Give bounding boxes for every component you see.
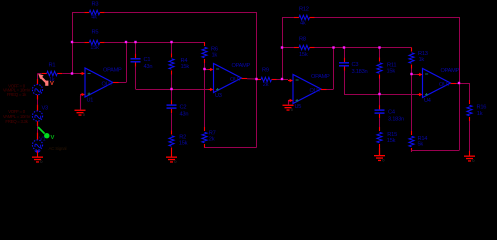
node junction C1 tap: [134, 41, 136, 43]
node junction OUT1-up: [125, 41, 127, 43]
resistor R9: [256, 68, 277, 89]
svg-text:R9: R9: [262, 68, 269, 74]
node junction x72/rail1b: [71, 41, 73, 43]
op-amp U3: [209, 63, 251, 99]
wire input node to R1: [38, 73, 42, 75]
wire rail1b down to R4: [171, 42, 173, 54]
ground at U5 plus input: [283, 101, 294, 113]
pin R15 bottom to ground: [379, 148, 381, 155]
wire C2 to R2: [171, 113, 173, 130]
node junction x282/rail2b: [281, 46, 283, 48]
wire mid2 node row: [344, 94, 418, 96]
resistor R2: [169, 131, 188, 152]
svg-text:R16: R16: [477, 105, 487, 111]
svg-text:OUT: OUT: [230, 77, 242, 83]
svg-text:C4: C4: [388, 109, 395, 115]
wire R4 to mid1: [171, 75, 173, 90]
svg-text:FREQ = 1k: FREQ = 1k: [7, 92, 27, 97]
svg-text:R1: R1: [49, 63, 56, 69]
svg-text:OPAMP: OPAMP: [103, 67, 122, 73]
node junction OUT2: [255, 78, 257, 80]
resistor R16: [467, 100, 486, 121]
svg-text:OUT: OUT: [310, 88, 322, 94]
wire R13 to U4 minus node: [411, 69, 413, 75]
wire R7 bottom corner to feedback: [204, 147, 206, 150]
wire R14 to x459 bottom: [412, 150, 460, 152]
wire rail2b down to C3: [344, 48, 346, 59]
wire rail2b down to R11: [379, 48, 381, 58]
resistor R7: [202, 127, 216, 148]
wire rail2b (OUT3 net): [315, 47, 412, 49]
wire R6 to U3 minus node: [204, 63, 206, 69]
resistor R15: [377, 127, 397, 148]
svg-text:15k: 15k: [387, 138, 396, 144]
wire R7 to x256 bottom: [205, 147, 257, 149]
svg-text:U4: U4: [424, 98, 431, 104]
ground under R15: [374, 150, 385, 163]
wire rail1b down to C1: [135, 42, 137, 54]
wire rail2b left segment: [282, 47, 294, 49]
wire rail1a R3 to x256 corner: [105, 12, 257, 14]
V3 source parameter text (VOFF/VAMPL/FREQ): [3, 109, 31, 124]
node junction mid2/R11: [378, 93, 380, 95]
svg-text:U1: U1: [87, 98, 94, 104]
resistor R5: [84, 30, 105, 51]
capacitor C1: [131, 54, 153, 70]
wire stage2 summing vertical x282: [282, 17, 284, 79]
svg-text:3.183n: 3.183n: [388, 116, 404, 122]
node junction R11 tap: [378, 46, 380, 48]
node junction C3 tap: [343, 46, 345, 48]
wire U3 minus node down to R7: [204, 69, 206, 127]
node junction OUT4: [458, 82, 460, 84]
op-amp U4: [418, 68, 460, 104]
pin V3 plus: [37, 105, 39, 111]
svg-text:V3: V3: [42, 106, 49, 112]
ground at U1 plus input: [75, 96, 86, 117]
node junction U3 minus: [203, 68, 205, 70]
wire R16 to ground: [469, 121, 471, 151]
resistor R11: [377, 58, 396, 79]
svg-text:OUT: OUT: [102, 82, 114, 88]
op-amp U1: [80, 67, 122, 103]
svg-text:V: V: [51, 135, 55, 141]
svg-text:43n: 43n: [180, 111, 189, 117]
resistor R12: [294, 7, 315, 27]
wire OUT4 to load corner: [456, 83, 470, 85]
voltage source V1 (VAC): [32, 137, 45, 151]
node junction U4 minus: [410, 73, 412, 75]
wire x459 vertical (OUT4 net): [459, 17, 461, 151]
svg-text:2k: 2k: [263, 82, 269, 88]
svg-text:R11: R11: [387, 63, 396, 69]
node junction OUT3-up: [332, 46, 334, 48]
resistor R1: [42, 63, 63, 84]
svg-text:R3: R3: [92, 2, 99, 8]
wire rail2a to x459: [315, 17, 460, 19]
wire R11 to mid2: [379, 79, 381, 95]
wire U1 plus to ground: [80, 94, 82, 110]
wire to U4 minus input: [412, 74, 418, 76]
svg-text:C1: C1: [144, 57, 151, 63]
resistor R13: [409, 48, 428, 69]
svg-text:U5: U5: [295, 104, 302, 110]
svg-text:2k: 2k: [209, 137, 215, 143]
pin V2 minus: [37, 95, 39, 100]
resistor R8: [294, 37, 315, 59]
capacitor C2: [167, 100, 189, 117]
green voltage marker V at V3-V1 node: [38, 127, 55, 141]
V1 AC source annotation text: [49, 146, 67, 151]
svg-text:AC Signal: AC Signal: [49, 146, 67, 151]
svg-text:15k: 15k: [387, 69, 396, 75]
wire C3 down to mid2: [344, 71, 346, 94]
svg-text:V1: V1: [39, 137, 46, 143]
wire x256 vertical (OUT2 net): [256, 12, 258, 148]
svg-text:OPAMP: OPAMP: [441, 68, 460, 74]
wire R9 to stage2 input: [277, 79, 289, 81]
wire C4 to R15: [379, 118, 381, 127]
wire R1 to U1 inverting input: [62, 73, 80, 75]
svg-text:C2: C2: [180, 104, 187, 110]
svg-text:15k: 15k: [181, 64, 190, 70]
pin V3 minus: [37, 121, 39, 126]
svg-text:5k: 5k: [418, 141, 424, 147]
V2 source parameter text (VOFF/VAMPL/FREQ): [3, 83, 31, 96]
svg-text:OPAMP: OPAMP: [232, 63, 251, 69]
svg-text:R4: R4: [181, 58, 188, 64]
wire C1 down to mid1: [135, 67, 137, 89]
ground under R16: [464, 151, 475, 163]
svg-text:OPAMP: OPAMP: [311, 74, 330, 80]
resistor R6: [202, 42, 218, 63]
svg-text:1k: 1k: [49, 77, 55, 83]
svg-text:43n: 43n: [144, 64, 153, 70]
pink voltage marker V at input node: [38, 74, 54, 87]
node junction x72 summing node: [71, 72, 73, 74]
svg-text:R12: R12: [299, 7, 309, 13]
wire mid1 down to C2: [171, 89, 173, 100]
op-amp U5: [288, 74, 330, 110]
wire input-node corner to source V2 top: [37, 74, 39, 80]
svg-text:4k: 4k: [91, 15, 97, 21]
wire V3 to V1: [37, 126, 39, 133]
svg-text:1k: 1k: [419, 57, 425, 63]
wire OUT3 stub to corner: [327, 89, 334, 91]
wire mid2 down to C4: [379, 94, 381, 105]
capacitor C3: [339, 58, 367, 75]
wire rail1a left segment: [72, 12, 84, 14]
wire OUT1 stub to corner: [119, 82, 127, 84]
voltage source V3 (VSIN): [32, 106, 48, 122]
svg-text:U3: U3: [215, 93, 222, 99]
svg-text:OUT: OUT: [439, 82, 451, 88]
pin V1 plus: [37, 133, 39, 140]
wire OUT3 up to rail2b: [333, 48, 335, 90]
wire R14 bottom corner right: [411, 151, 413, 153]
ground under V1: [32, 151, 43, 164]
wire load column down: [469, 83, 471, 100]
wire OUT1 up to rail1b: [126, 42, 128, 83]
ground under R2: [166, 152, 177, 165]
svg-text:3.183n: 3.183n: [352, 69, 368, 75]
resistor R4: [169, 54, 189, 75]
node junction stage2 input: [281, 78, 283, 80]
wire U5 plus to ground: [288, 101, 290, 105]
wire rail1b (OUT1 net): [105, 42, 205, 44]
wire OUT2 to R9: [247, 78, 257, 80]
wire V2 to V3: [37, 100, 39, 105]
svg-text:R8: R8: [299, 37, 306, 43]
pin V2 plus: [37, 79, 39, 84]
wire rail1b left segment: [72, 42, 84, 44]
voltage source V2 (VSIN): [32, 85, 42, 95]
node junction R4 tap: [170, 41, 172, 43]
svg-text:C3: C3: [352, 62, 359, 68]
svg-text:1k: 1k: [477, 111, 483, 117]
wire mid1 node row: [136, 89, 209, 91]
svg-text:15k: 15k: [179, 140, 188, 146]
svg-text:15k: 15k: [299, 52, 308, 58]
svg-text:FREQ = 3.3k: FREQ = 3.3k: [5, 119, 28, 124]
wire summing node vertical x72: [72, 12, 74, 74]
svg-text:1k: 1k: [212, 53, 218, 59]
resistor R3: [84, 2, 105, 21]
capacitor C4: [375, 105, 404, 122]
wire rail2a left segment: [282, 17, 294, 19]
node junction mid1/R4: [170, 88, 172, 90]
pin V1 minus arrow: [34, 150, 41, 153]
resistor R14: [409, 131, 427, 152]
wire U4 minus node down to R14: [411, 74, 413, 131]
wire to U3 minus input: [205, 69, 209, 71]
svg-text:4k: 4k: [300, 21, 306, 27]
svg-text:15k: 15k: [90, 45, 99, 51]
svg-text:R5: R5: [92, 30, 99, 36]
